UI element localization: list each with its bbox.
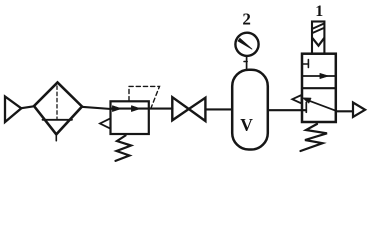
air receiver tank: [232, 70, 268, 150]
air source triangle: [5, 97, 21, 123]
wire: valve outlet: [336, 110, 353, 112]
actuator diagonal stroke upper: [313, 24, 324, 29]
gauge stem wire: [246, 56, 248, 70]
valve position divider: [302, 87, 336, 89]
wire: through regulator to shut-off valve: [111, 108, 173, 110]
wire: source to filter: [21, 106, 35, 108]
actuator diagonal stroke lower: [313, 28, 324, 33]
top box blocked port line: [303, 63, 308, 65]
svg-text:V: V: [240, 115, 253, 135]
regulator flow arrowhead 1: [113, 106, 122, 112]
directional valve body: [302, 54, 336, 122]
svg-text:2: 2: [242, 10, 251, 29]
wire: filter to regulator: [82, 107, 112, 109]
regulator flow arrowhead 2: [132, 106, 141, 112]
bottom box diagonal arrowhead: [302, 98, 311, 103]
regulator spring: [116, 136, 132, 161]
regulator relief vent triangle: [100, 118, 111, 128]
bottom box diagonal flow line: [306, 100, 336, 111]
top box flow path line: [303, 75, 335, 77]
actuator chevron: [313, 38, 324, 45]
top box flow arrowhead: [320, 73, 329, 78]
gauge stem tick: [244, 61, 247, 63]
exhaust triangle: [292, 95, 301, 104]
output triangle: [353, 103, 365, 118]
gauge needle: [238, 38, 252, 49]
valve actuator box: [312, 22, 324, 54]
wire: shut-off valve to receiver: [206, 108, 233, 110]
svg-text:1: 1: [315, 3, 323, 20]
filter element dashed line: [56, 86, 58, 119]
pressure regulator box: [111, 101, 149, 134]
valve inlet blocked-port tick: [305, 102, 307, 112]
valve return spring: [301, 124, 328, 151]
shut-off valve right triangle: [189, 98, 206, 121]
filter drain stem: [55, 134, 57, 140]
pressure gauge circle: [235, 33, 258, 56]
wire: receiver to valve inlet: [268, 109, 306, 111]
top box blocked port tick: [307, 60, 309, 68]
regulator pilot dashed line: [129, 86, 160, 107]
filter diamond body: [34, 83, 82, 135]
shut-off valve left triangle: [172, 97, 189, 120]
filter water-trap chord: [43, 119, 73, 121]
